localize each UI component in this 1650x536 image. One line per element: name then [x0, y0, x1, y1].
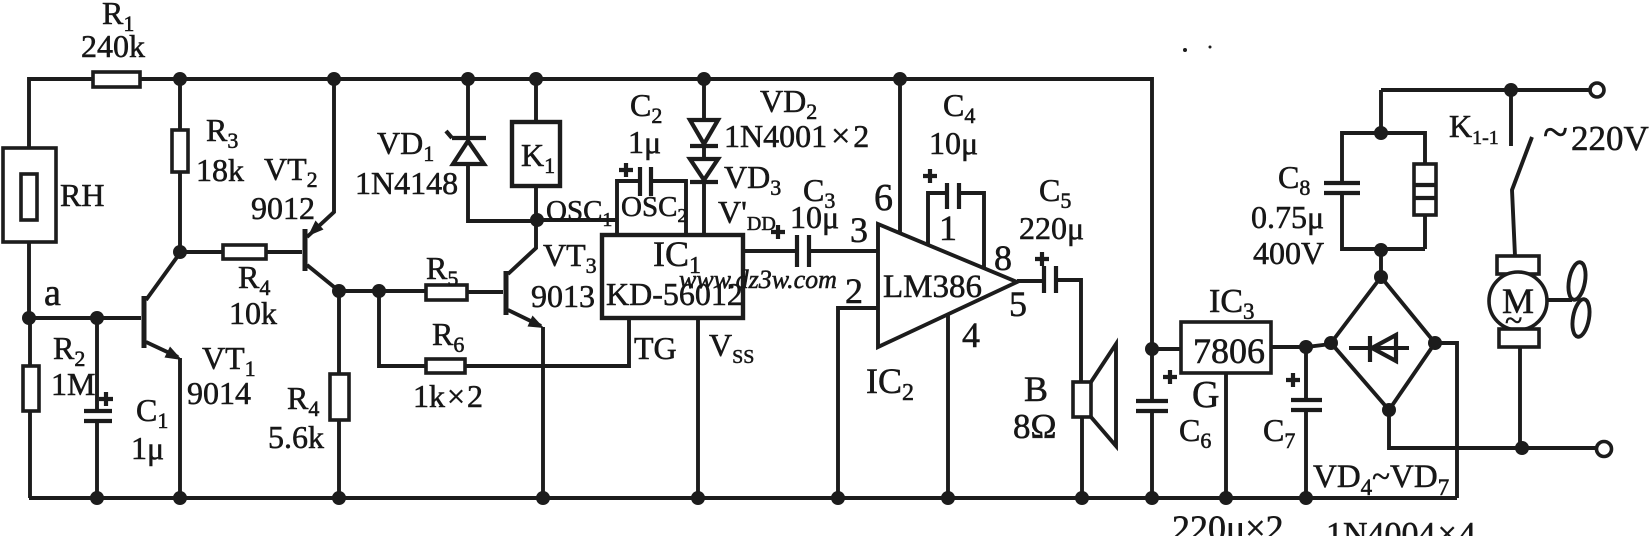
svg-text:7806: 7806 [1193, 331, 1265, 371]
svg-text:LM386: LM386 [883, 269, 982, 305]
svg-text:G: G [1192, 374, 1219, 416]
svg-text:~: ~ [1505, 302, 1522, 338]
svg-text:18k: 18k [196, 152, 244, 188]
svg-text:1μ: 1μ [131, 430, 164, 466]
svg-text:1M: 1M [51, 366, 95, 402]
svg-text:9012: 9012 [251, 190, 315, 226]
svg-text:1: 1 [939, 208, 957, 248]
svg-text:0.75μ: 0.75μ [1251, 199, 1324, 235]
svg-text:240k: 240k [81, 28, 145, 64]
svg-text:~: ~ [1543, 106, 1568, 157]
svg-text:1N4148: 1N4148 [355, 165, 458, 201]
svg-text:10μ: 10μ [929, 125, 978, 161]
svg-text:1k×2: 1k×2 [413, 378, 483, 414]
svg-text:220V: 220V [1571, 119, 1649, 158]
svg-text:9014: 9014 [187, 375, 251, 411]
svg-text:TG: TG [634, 330, 677, 366]
svg-text:a: a [44, 272, 61, 314]
svg-text:1N4001×2: 1N4001×2 [724, 118, 869, 155]
svg-text:9013: 9013 [531, 278, 595, 314]
svg-text:8Ω: 8Ω [1013, 407, 1057, 446]
svg-text:VD4~VD7: VD4~VD7 [1313, 459, 1449, 500]
svg-text:10μ: 10μ [790, 199, 839, 235]
svg-text:5.6k: 5.6k [268, 419, 324, 455]
svg-text:www.dz3w.com: www.dz3w.com [679, 265, 837, 294]
svg-text:8: 8 [994, 238, 1012, 278]
svg-text:6: 6 [874, 177, 893, 219]
svg-text:3: 3 [850, 210, 868, 250]
svg-text:4: 4 [962, 315, 980, 355]
svg-text:220μ: 220μ [1019, 210, 1084, 246]
svg-text:220μ×2: 220μ×2 [1172, 508, 1284, 536]
svg-text:RH: RH [60, 177, 104, 213]
svg-text:2: 2 [845, 271, 863, 311]
svg-text:5: 5 [1009, 284, 1027, 324]
svg-text:1N4004×4: 1N4004×4 [1326, 516, 1476, 536]
svg-text:1μ: 1μ [628, 124, 661, 160]
svg-text:400V: 400V [1253, 235, 1324, 271]
svg-text:B: B [1024, 369, 1048, 409]
svg-text:10k: 10k [229, 295, 277, 331]
